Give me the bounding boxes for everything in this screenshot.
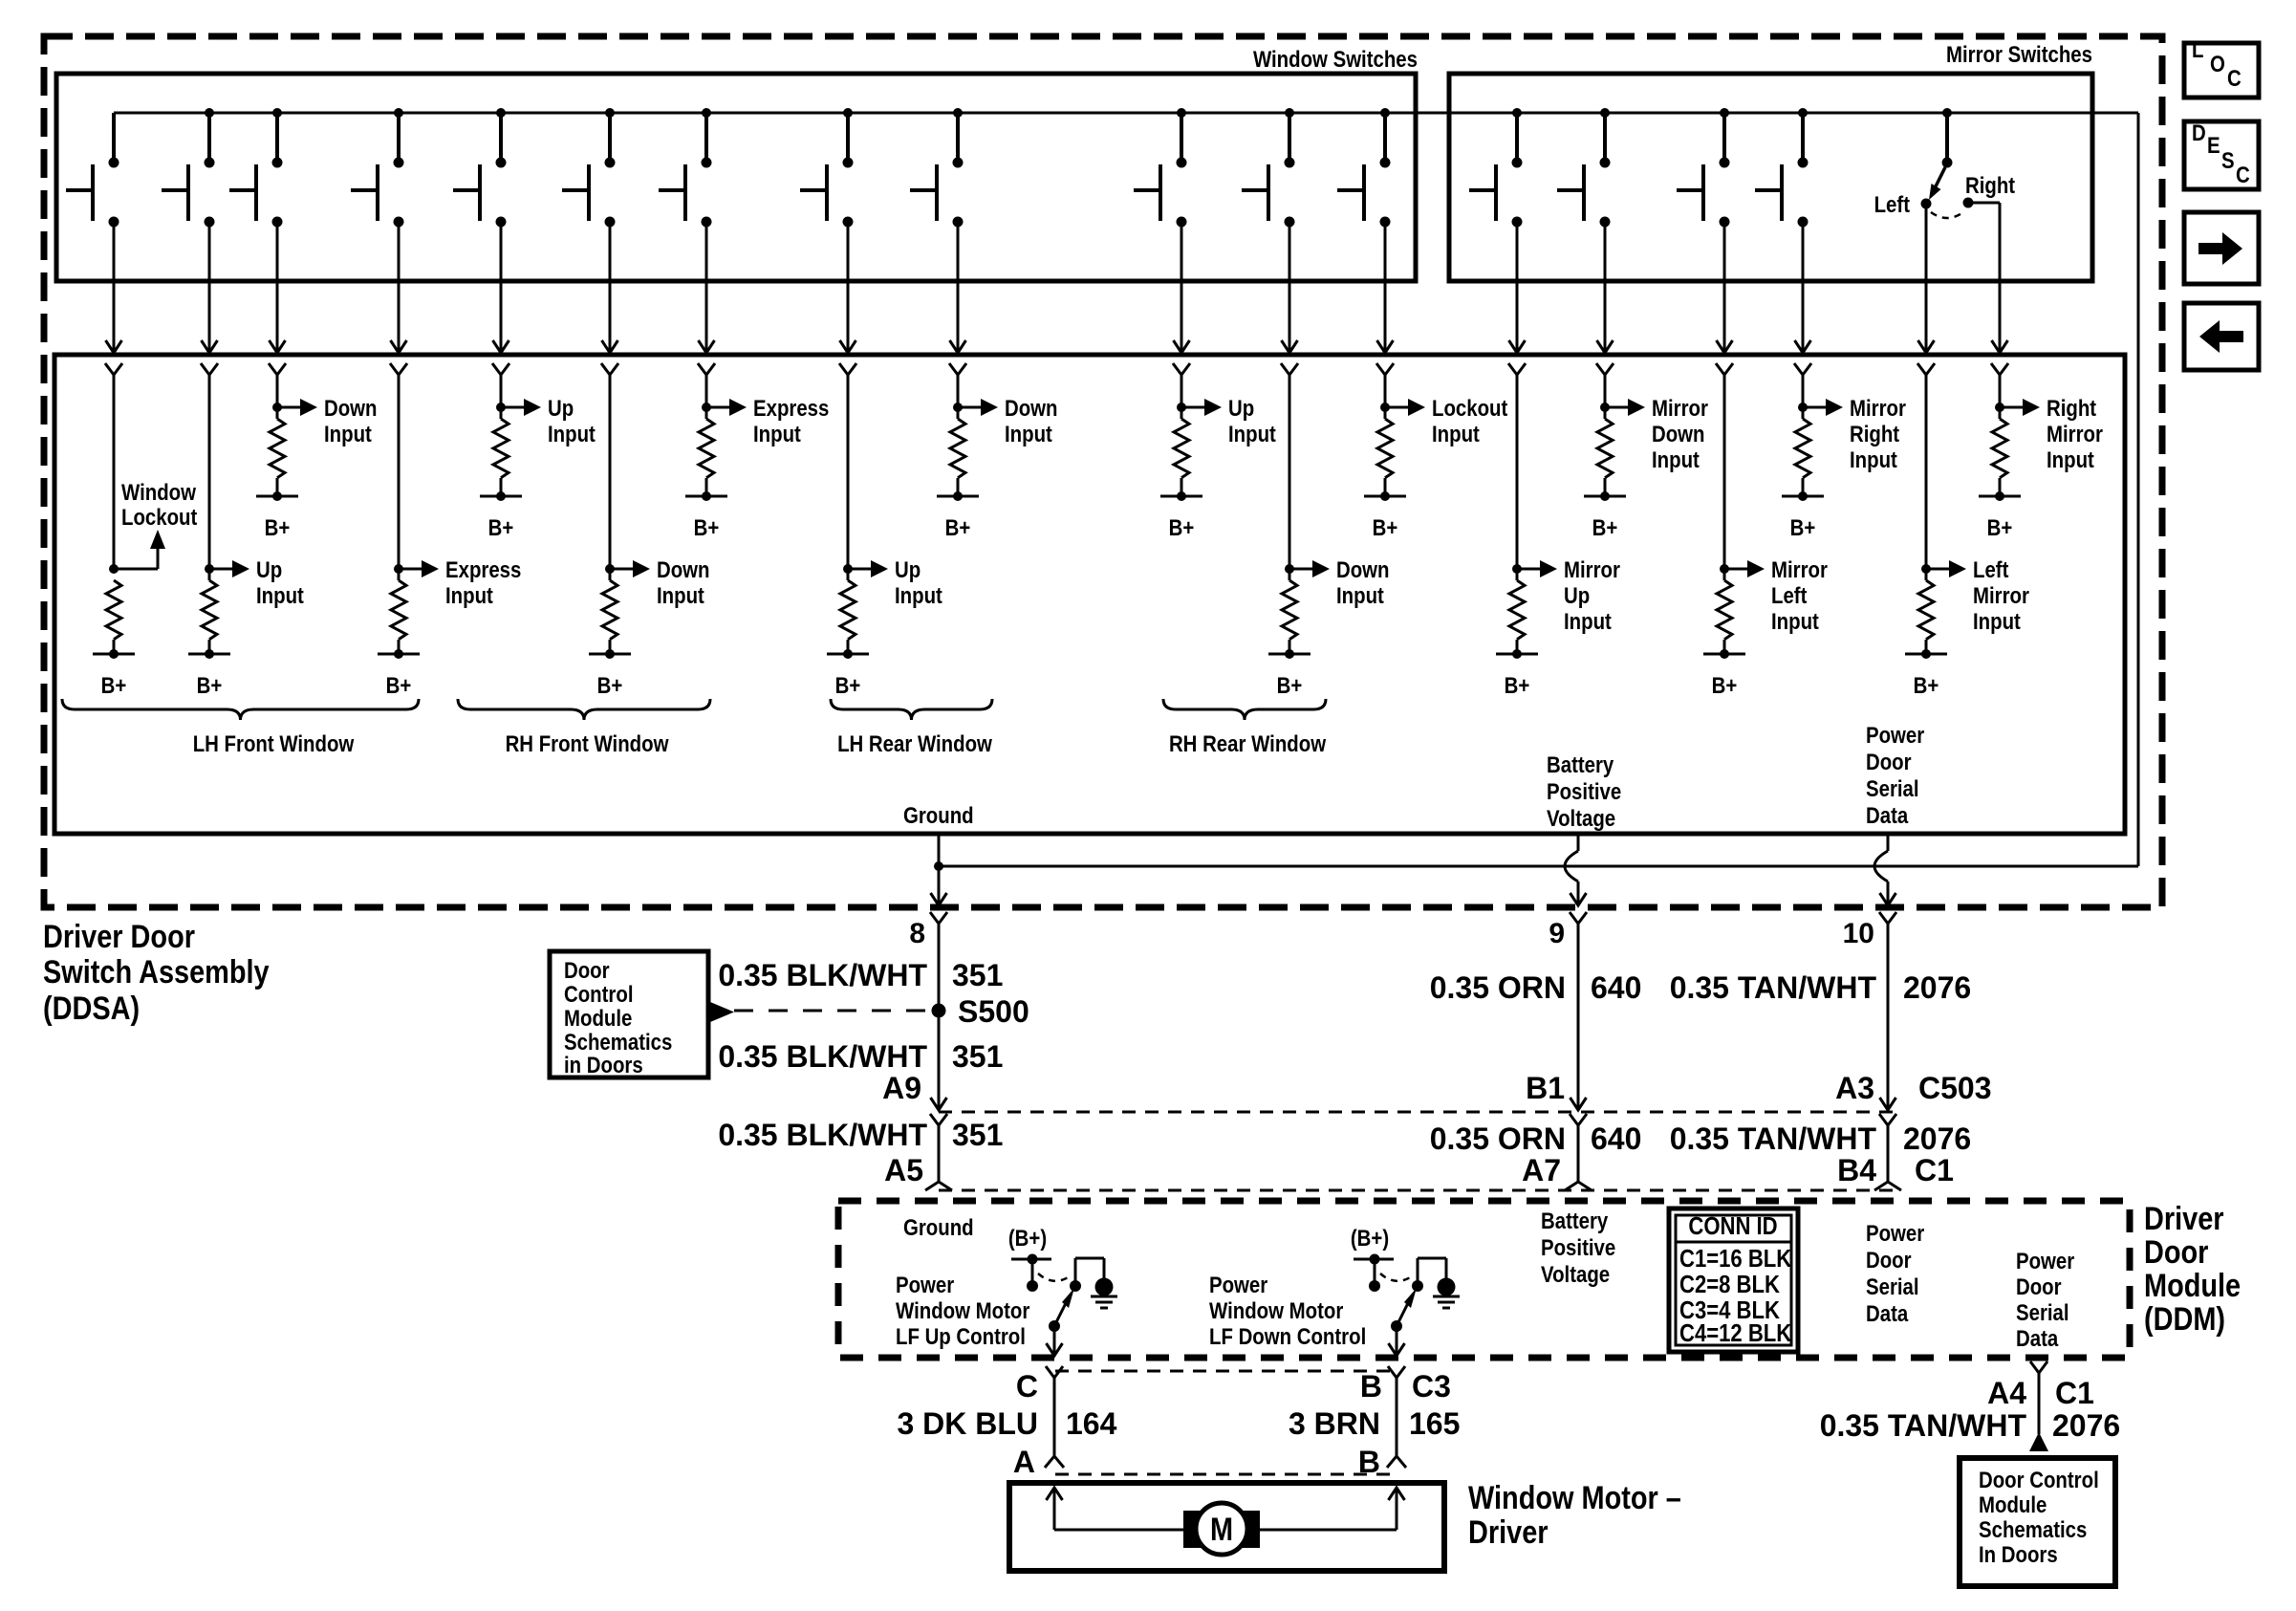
node: junction x=524: [496, 403, 506, 412]
icon box arrow right: [2184, 212, 2259, 284]
svg-text:Left: Left: [1973, 556, 2009, 582]
connector socket pin, column x=1002: [949, 363, 966, 375]
label Battery Positive Voltage: [1547, 751, 1621, 831]
label Driver Door Switch Assembly (DDSA): [43, 918, 270, 1027]
power B+ terminal: [1496, 649, 1538, 698]
svg-text:B+: B+: [694, 514, 720, 540]
connector socket pin, column x=887: [839, 363, 856, 375]
label Mirror Left Input: [1771, 556, 1828, 634]
svg-text:Lockout: Lockout: [121, 504, 198, 530]
label Ground: [903, 802, 974, 828]
wire: motor lead A: [1047, 1488, 1184, 1530]
svg-text:Express: Express: [753, 395, 829, 421]
svg-text:B+: B+: [1987, 514, 2013, 540]
label LH Rear Window: [837, 730, 992, 756]
svg-text:Up: Up: [548, 395, 574, 421]
svg-text:B+: B+: [265, 514, 291, 540]
svg-text:B+: B+: [1712, 672, 1738, 698]
svg-text:C4=12 BLK: C4=12 BLK: [1679, 1319, 1792, 1347]
svg-text:B+: B+: [835, 672, 861, 698]
label Down Input: [1005, 395, 1058, 446]
svg-text:B+: B+: [1505, 672, 1530, 698]
svg-text:Right: Right: [1965, 172, 2016, 198]
icon box DESC: [2184, 120, 2259, 189]
connector socket pin, column x=417: [390, 363, 407, 375]
CONN ID table: [1669, 1208, 1798, 1352]
svg-text:Mirror: Mirror: [1973, 582, 2029, 608]
svg-text:0.35 BLK/WHT: 0.35 BLK/WHT: [718, 1118, 927, 1152]
label Left: [1874, 191, 1911, 217]
svg-text:Down: Down: [657, 556, 710, 582]
input tap arrow Down Input: [958, 399, 998, 416]
wire: serial data pin 10 drop with crossover hop: [1874, 834, 1896, 905]
input tap arrow Mirror Left Input: [1724, 560, 1765, 577]
svg-text:RH Rear Window: RH Rear Window: [1169, 730, 1327, 756]
svg-text:2076: 2076: [1903, 970, 1971, 1005]
switch LF express switch (column x=417): [351, 108, 404, 228]
svg-text:Module: Module: [2144, 1267, 2241, 1304]
dashed travel arc: [1038, 1274, 1070, 1281]
resistor R15 (Mirror Left Input): [1717, 569, 1732, 654]
connector socket pin, column x=119: [105, 363, 122, 375]
reference box Door Control Module Schematics In Doors: [1960, 1458, 2115, 1586]
connector socket pin, column x=2015: [1917, 363, 1935, 375]
svg-text:Input: Input: [256, 582, 304, 608]
wire 640 ORN segment: [1577, 924, 1580, 1110]
wire: Left mirror output: [1918, 208, 1935, 353]
svg-text:3 BRN: 3 BRN: [1289, 1406, 1380, 1441]
connector socket pin, column x=2092: [1991, 363, 2008, 375]
label Down Input: [657, 556, 710, 608]
svg-text:Window Switches: Window Switches: [1253, 46, 1418, 72]
svg-text:Power: Power: [1209, 1272, 1268, 1297]
svg-text:0.35 BLK/WHT: 0.35 BLK/WHT: [718, 958, 927, 992]
svg-text:Schematics: Schematics: [1979, 1516, 2087, 1542]
svg-text:Input: Input: [895, 582, 942, 608]
resistor R17 (Left Mirror Input): [1918, 569, 1934, 654]
input tap arrow Up Input: [501, 399, 541, 416]
svg-text:Data: Data: [1866, 1300, 1909, 1326]
svg-text:B+: B+: [945, 514, 971, 540]
window lockout tap wire: [114, 568, 158, 571]
svg-text:0.35 BLK/WHT: 0.35 BLK/WHT: [718, 1039, 927, 1074]
label Right Mirror Input: [2047, 395, 2103, 472]
svg-text:S500: S500: [958, 994, 1029, 1029]
dashed travel arc of mirror select: [1931, 212, 1963, 218]
svg-text:B+: B+: [1790, 514, 1816, 540]
svg-text:D: D: [2192, 120, 2206, 145]
wire: column x=2092 into panel: [1999, 375, 2002, 407]
dashed travel arc: [1380, 1274, 1412, 1281]
resistor R16 (Mirror Right Input): [1795, 407, 1810, 496]
power B+ terminal: [1268, 649, 1310, 698]
svg-text:Driver Door: Driver Door: [43, 918, 195, 955]
svg-text:Window Motor –: Window Motor –: [1468, 1479, 1681, 1516]
svg-text:Ground: Ground: [903, 1214, 974, 1240]
svg-text:Data: Data: [1866, 802, 1909, 828]
svg-text:Window: Window: [121, 479, 197, 505]
label 0.35 BLK/WHT 351 (third): [718, 1118, 1003, 1152]
wire: column x=1349 into panel: [1289, 375, 1291, 569]
svg-text:Input: Input: [1652, 446, 1700, 472]
wire: LF up control output: [1047, 1326, 1063, 1356]
svg-text:C2=8 BLK: C2=8 BLK: [1679, 1271, 1780, 1298]
svg-text:9: 9: [1549, 918, 1565, 949]
power B+ terminal: [1160, 491, 1202, 540]
wire: serial data A4 out of DDM: [2030, 1361, 2047, 1434]
power B+ terminal: [1979, 491, 2021, 540]
svg-text:(DDSA): (DDSA): [43, 990, 140, 1027]
resistor R7 (Express Input): [699, 407, 714, 496]
power B+ terminal: [685, 491, 727, 540]
node: junction x=417: [394, 564, 403, 574]
svg-text:LH Rear Window: LH Rear Window: [837, 730, 992, 756]
svg-text:Switch Assembly: Switch Assembly: [43, 953, 270, 991]
wire: serial bus drop (right side): [2137, 113, 2140, 866]
svg-text:Left: Left: [1771, 582, 1808, 608]
svg-text:B+: B+: [597, 672, 623, 698]
wire 2076 to DDM: [1874, 1125, 1901, 1190]
wire: mirror up switch output to assembly: [1509, 222, 1526, 353]
input tap arrow Lockout Input: [1385, 399, 1425, 416]
node: ground junction: [934, 861, 943, 871]
svg-text:C: C: [1016, 1369, 1038, 1404]
wire: mirror left switch output to assembly: [1717, 222, 1733, 353]
label Power Door Serial Data: [1866, 722, 1925, 828]
switch LR down switch (column x=1002): [910, 108, 964, 228]
in-line connector C3 dashed outline: [1055, 1371, 1397, 1474]
svg-text:M: M: [1210, 1511, 1233, 1548]
wire: mirror right switch output to assembly: [1795, 222, 1811, 353]
input tap arrow Left Mirror Input: [1926, 560, 1966, 577]
label Window Motor - Driver: [1468, 1479, 1681, 1551]
driver switch LF down control: [1354, 1254, 1446, 1293]
svg-text:Down: Down: [1005, 395, 1058, 421]
svg-text:Input: Input: [1973, 608, 2021, 634]
svg-text:A3: A3: [1835, 1071, 1874, 1105]
svg-text:(B+): (B+): [1008, 1225, 1047, 1251]
mirror select switch common feed: [1942, 108, 1953, 168]
switch RF express switch (column x=739): [659, 108, 712, 228]
wire: column x=1449 into panel: [1384, 375, 1387, 407]
switch RR up switch (column x=1236): [1134, 108, 1187, 228]
resistor R12 (Lockout Input): [1377, 407, 1393, 496]
svg-text:Down: Down: [1336, 556, 1390, 582]
power B+ terminal: [93, 649, 135, 698]
svg-text:C1: C1: [1915, 1153, 1954, 1187]
connector socket pin, column x=1679: [1596, 363, 1614, 375]
svg-text:Down: Down: [324, 395, 378, 421]
svg-text:In Doors: In Doors: [1979, 1541, 2058, 1567]
node: junction x=887: [843, 564, 853, 574]
label Right: [1965, 172, 2016, 198]
power B+ terminal: [1703, 649, 1745, 698]
svg-text:8: 8: [909, 918, 925, 949]
label Up Input: [895, 556, 942, 608]
svg-text:0.35 ORN: 0.35 ORN: [1430, 970, 1566, 1005]
power B+ terminal: [256, 491, 298, 540]
label 0.35 BLK/WHT 351: [718, 958, 1003, 992]
svg-text:(B+): (B+): [1351, 1225, 1389, 1251]
switch RR down switch (column x=1349): [1242, 108, 1295, 228]
label Power Window Motor LF Down Control: [1209, 1272, 1366, 1349]
switch window lockout (column x=119): [66, 113, 119, 228]
label Mirror Down Input: [1652, 395, 1708, 472]
svg-text:Driver: Driver: [1468, 1513, 1549, 1551]
connector socket pin, column x=290: [269, 363, 286, 375]
svg-text:B+: B+: [1169, 514, 1195, 540]
wire 165 BRN: [1387, 1378, 1406, 1468]
wire: RF up switch output to assembly: [493, 222, 509, 353]
svg-text:Up: Up: [1564, 582, 1590, 608]
svg-text:Ground: Ground: [903, 802, 974, 828]
svg-text:Up: Up: [1228, 395, 1254, 421]
switch lockout switch (column x=1449): [1337, 108, 1391, 228]
connector pin 10: [1843, 912, 1896, 949]
svg-text:Input: Input: [1850, 446, 1897, 472]
Window Switches box: [56, 74, 1416, 281]
svg-text:Data: Data: [2016, 1325, 2059, 1351]
motor M symbol: [1183, 1503, 1260, 1555]
label Driver Door Module (DDM): [2144, 1200, 2241, 1338]
wiper arm arrow: [1391, 1288, 1417, 1332]
svg-text:Up: Up: [256, 556, 282, 582]
svg-text:0.35 TAN/WHT: 0.35 TAN/WHT: [1670, 1121, 1877, 1156]
label 0.35 TAN/WHT 2076 (second): [1670, 1121, 1972, 1156]
svg-text:640: 640: [1591, 1121, 1641, 1156]
wire: ground pin 8 drop: [931, 834, 947, 905]
svg-text:Power: Power: [896, 1272, 955, 1297]
power B+ terminal: [1364, 491, 1406, 540]
svg-text:Door: Door: [1866, 749, 1912, 774]
svg-text:in Doors: in Doors: [564, 1052, 643, 1078]
svg-text:LF Down Control: LF Down Control: [1209, 1323, 1366, 1349]
branch arrow (solid triangle): [710, 1002, 734, 1022]
resistor R6 (Down Input): [602, 569, 617, 654]
switch mirror down switch (column x=1679): [1557, 108, 1611, 228]
connector pin 8: [909, 912, 947, 949]
pin A4 / C1: [1987, 1376, 2094, 1410]
wire: column x=1002 into panel: [957, 375, 960, 407]
label Express Input: [753, 395, 829, 446]
label 0.35 TAN/WHT 2076 (third): [1820, 1408, 2121, 1443]
wire: mirror down switch output to assembly: [1597, 222, 1614, 353]
svg-text:Input: Input: [1564, 608, 1612, 634]
svg-text:A7: A7: [1522, 1153, 1561, 1187]
wire: LR up switch output to assembly: [840, 222, 856, 353]
power B+ terminal: [1782, 491, 1824, 540]
svg-text:L: L: [2192, 36, 2203, 62]
switch mirror right switch (column x=1886): [1755, 108, 1809, 228]
svg-text:LH Front Window: LH Front Window: [193, 730, 355, 756]
label 0.35 TAN/WHT 2076: [1670, 970, 1972, 1005]
svg-text:C1: C1: [2055, 1376, 2094, 1410]
svg-text:Input: Input: [445, 582, 493, 608]
pin B4 / C1: [1837, 1153, 1954, 1187]
connector socket pin, column x=219: [201, 363, 218, 375]
connector socket pin, column x=524: [492, 363, 509, 375]
connector socket pin, column x=1886: [1794, 363, 1811, 375]
wire: battery pin 9 drop with crossover hop: [1565, 834, 1587, 905]
wire: RR down switch output to assembly: [1282, 222, 1298, 353]
node: Right contact: [1963, 198, 1974, 208]
svg-text:Voltage: Voltage: [1547, 805, 1615, 831]
wire: lockout column: [113, 375, 116, 569]
svg-text:Power: Power: [1866, 722, 1925, 748]
wire: RR up switch output to assembly: [1174, 222, 1190, 353]
svg-text:A4: A4: [1987, 1376, 2026, 1410]
svg-text:C: C: [2227, 65, 2242, 91]
svg-text:Window Motor: Window Motor: [896, 1297, 1030, 1323]
svg-text:Battery: Battery: [1541, 1208, 1609, 1233]
svg-text:Mirror: Mirror: [1771, 556, 1828, 582]
svg-text:164: 164: [1066, 1406, 1117, 1441]
brace group LH Rear Window: [831, 699, 992, 720]
svg-text:640: 640: [1591, 970, 1641, 1005]
resistor R1 (window lockout pull-up): [106, 580, 121, 654]
svg-text:Input: Input: [1228, 421, 1276, 446]
wire: switch common bus: [114, 112, 2138, 115]
Mirror Switches box: [1449, 74, 2092, 281]
pin C: [1016, 1366, 1063, 1404]
svg-text:Module: Module: [564, 1005, 632, 1031]
resistor R13 (Mirror Up Input): [1509, 569, 1525, 654]
svg-text:C3: C3: [1412, 1369, 1451, 1404]
Window Motor Driver box: [1009, 1483, 1444, 1571]
switch RF up switch (column x=524): [453, 108, 507, 228]
svg-text:Input: Input: [1771, 608, 1819, 634]
label LH Front Window: [193, 730, 355, 756]
input tap arrow Up Input: [1181, 399, 1222, 416]
power B+ terminal: [589, 649, 631, 698]
label Power Door Serial Data (DDM 1): [1866, 1220, 1925, 1326]
window lockout arrow (up): [150, 530, 165, 569]
wire: LF down control output: [1389, 1326, 1405, 1356]
wire: column x=1587 into panel: [1516, 375, 1519, 569]
svg-text:RH Front Window: RH Front Window: [506, 730, 669, 756]
svg-text:B+: B+: [197, 672, 223, 698]
svg-text:LF Up Control: LF Up Control: [896, 1323, 1026, 1349]
power B+ terminal: [480, 491, 522, 540]
svg-text:Battery: Battery: [1547, 751, 1614, 777]
power B+ terminal: [378, 649, 420, 698]
svg-text:Door: Door: [1866, 1247, 1912, 1273]
svg-text:0.35 TAN/WHT: 0.35 TAN/WHT: [1820, 1408, 2027, 1443]
svg-text:2076: 2076: [2052, 1408, 2120, 1443]
wire: RF down switch output to assembly: [602, 222, 618, 353]
svg-text:B+: B+: [1373, 514, 1398, 540]
switch mirror left switch (column x=1804): [1677, 108, 1730, 228]
wire: ground link horizontal: [939, 865, 2138, 868]
wire: LF up switch output to assembly: [202, 222, 218, 353]
wire: LF down switch output to assembly: [270, 222, 286, 353]
svg-text:165: 165: [1409, 1406, 1460, 1441]
svg-text:B+: B+: [1592, 514, 1618, 540]
node: junction x=1236: [1177, 403, 1186, 412]
input tap arrow Down Input: [610, 560, 650, 577]
wire: Right mirror output: [1968, 203, 2008, 353]
connector pin 9: [1549, 912, 1587, 949]
label 0.35 ORN 640 (second): [1430, 1121, 1642, 1156]
power B+ terminal: [827, 649, 869, 698]
resistor R2 (Up Input): [202, 569, 217, 654]
svg-text:B+: B+: [488, 514, 514, 540]
svg-text:Left: Left: [1874, 191, 1911, 217]
wire: column x=524 into panel: [500, 375, 503, 407]
input tap arrow Up Input: [848, 560, 888, 577]
wire: LR down switch output to assembly: [950, 222, 966, 353]
svg-text:Input: Input: [1005, 421, 1052, 446]
label Left Mirror Input: [1973, 556, 2029, 634]
svg-text:B+: B+: [1914, 672, 1939, 698]
wire 640 to DDM: [1565, 1125, 1592, 1190]
label RH Front Window: [506, 730, 669, 756]
pin A9: [882, 1071, 947, 1125]
svg-text:Positive: Positive: [1547, 778, 1621, 804]
svg-text:351: 351: [952, 1118, 1003, 1152]
label 0.35 BLK/WHT 351 (second): [718, 1039, 1003, 1074]
label Up Input: [1228, 395, 1276, 446]
svg-text:B+: B+: [101, 672, 127, 698]
connector socket pin, column x=1804: [1716, 363, 1733, 375]
connector socket pin, column x=1449: [1376, 363, 1394, 375]
svg-text:A: A: [1013, 1445, 1035, 1479]
icon box LOC: [2184, 36, 2259, 98]
svg-text:Window Motor: Window Motor: [1209, 1297, 1344, 1323]
svg-text:Module: Module: [1979, 1491, 2047, 1517]
resistor R3 (Down Input): [270, 407, 285, 496]
wire: column x=1886 into panel: [1802, 375, 1805, 407]
node: junction x=1587: [1512, 564, 1522, 574]
resistor R11 (Down Input): [1282, 569, 1297, 654]
svg-text:2076: 2076: [1903, 1121, 1971, 1156]
connector socket pin, column x=638: [601, 363, 618, 375]
svg-text:Serial: Serial: [2016, 1299, 2069, 1325]
wiper arm arrow: [1049, 1288, 1074, 1332]
resistor R4 (Express Input): [391, 569, 406, 654]
svg-text:Serial: Serial: [1866, 1274, 1919, 1299]
wire: column x=290 into panel: [276, 375, 279, 407]
wire: column x=2015 into panel: [1925, 375, 1928, 569]
input tap arrow Down Input: [1289, 560, 1330, 577]
svg-text:Express: Express: [445, 556, 521, 582]
switch LF up switch (column x=219): [162, 108, 215, 228]
node: junction x=2015: [1921, 564, 1931, 574]
svg-text:C1=16 BLK: C1=16 BLK: [1679, 1245, 1792, 1273]
label Mirror Right Input: [1850, 395, 1906, 472]
svg-text:Right: Right: [1850, 421, 1900, 446]
svg-text:0.35 TAN/WHT: 0.35 TAN/WHT: [1670, 970, 1877, 1005]
chassis ground symbol: [1091, 1278, 1117, 1309]
svg-text:351: 351: [952, 958, 1003, 992]
pin B / C3: [1360, 1366, 1451, 1404]
svg-text:Mirror: Mirror: [1850, 395, 1906, 421]
node: lockout junction: [109, 564, 119, 574]
svg-text:Door: Door: [564, 957, 610, 983]
input tap arrow Mirror Right Input: [1803, 399, 1843, 416]
label Up Input: [256, 556, 304, 608]
svg-text:C503: C503: [1918, 1071, 1992, 1105]
label Battery Positive Voltage (DDM): [1541, 1208, 1615, 1287]
svg-text:10: 10: [1843, 918, 1874, 949]
resistor R9 (Down Input): [950, 407, 965, 496]
svg-text:Input: Input: [1432, 421, 1480, 446]
brace group RH Rear Window: [1163, 699, 1326, 720]
svg-text:Input: Input: [548, 421, 596, 446]
input tap arrow Down Input: [277, 399, 317, 416]
node: junction x=2092: [1995, 403, 2004, 412]
svg-text:B+: B+: [386, 672, 412, 698]
